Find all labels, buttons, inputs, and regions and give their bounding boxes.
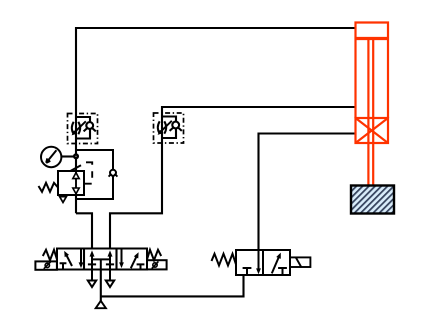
V3 body [58, 171, 84, 195]
V1 enclosure frame [68, 114, 98, 144]
V3 adjustment tick [71, 165, 81, 171]
V5 pneumatic pilot [290, 257, 310, 267]
wire: left riser through flow control to regulator [75, 27, 77, 213]
wire: cylinder cap supply (top horizontal) [76, 27, 356, 29]
V4 exhaust 5 [88, 281, 96, 288]
V4 right box down arrow [121, 249, 123, 264]
V4 left box down arrow [80, 249, 82, 264]
pressure regulator V3 [39, 150, 118, 202]
V1 adjustment arrow [75, 121, 86, 132]
C1 piston rod [368, 40, 373, 186]
V4 right box crossed arrow [131, 255, 137, 268]
V1 check ball [86, 122, 93, 129]
pressure gauge Z1 [41, 147, 61, 167]
V1 throttle arcs [72, 122, 80, 134]
C1 piston [356, 37, 389, 40]
V3 pilot line (dashed) [85, 162, 93, 183]
wire: rod-side feed from cylinder through right flow control to valve port 2 [110, 107, 356, 251]
V3 bypass check valve [110, 170, 116, 176]
V4 right box blocked port [137, 264, 145, 269]
V4 right pilot [147, 260, 167, 269]
V5 body [236, 250, 290, 275]
V4 right spring [147, 250, 161, 260]
V2 throttle arcs [158, 121, 166, 133]
flow control valve V2 (one-way flow control, right) [154, 113, 184, 143]
V4 left pilot [35, 261, 57, 269]
V5 right box pass arrow [272, 257, 279, 274]
wire: supply branch to 3/2 valve [101, 275, 244, 296]
V2 bypass loop [162, 117, 176, 139]
V4 centre box port lines with up arrows [92, 256, 110, 281]
V5 spring [212, 254, 237, 266]
wire: gauge link [62, 155, 75, 157]
V2 enclosure frame [154, 113, 184, 143]
V4 exhaust 3 [106, 281, 114, 288]
V2 adjustment arrow [161, 121, 172, 132]
node: gauge junction [74, 155, 78, 159]
V5 left box down arrow [258, 250, 260, 269]
V2 check seat [170, 127, 182, 131]
V3 spring [39, 183, 59, 192]
V2 check ball [172, 122, 179, 129]
C1 barrel [356, 23, 389, 119]
C1 end box with cross [356, 118, 389, 143]
cylinder C1 (orange, vertical with load) [356, 23, 389, 186]
V4 left box crossed arrow [66, 254, 72, 266]
V4 left box blocked port [60, 263, 67, 269]
V4 centre box blocked caps [88, 263, 114, 265]
V3 drain [60, 197, 67, 203]
V4 body [57, 249, 147, 270]
V4 left spring [43, 250, 57, 260]
V3 bypass loop wire [76, 150, 113, 199]
5/3 way valve V4 (pressure centre) [35, 249, 166, 288]
V5 left box blocked port [243, 268, 252, 275]
V1 check seat [84, 127, 96, 131]
V4 centre box supply line [100, 259, 102, 269]
V4 centre box bridge [92, 258, 110, 260]
V1 bypass loop [76, 117, 90, 139]
wire: supply drop from 5/3 valve to source [100, 270, 102, 302]
V5 right box blocked port [278, 268, 287, 275]
3/2 way valve V5 [212, 250, 311, 275]
wire: 3/2 valve output to cylinder bottom port [259, 134, 356, 251]
flow control valve V1 (one-way flow control, left) [68, 114, 98, 144]
load mass on rod [351, 186, 394, 214]
wire: regulator output jog to valve port 4 [76, 213, 92, 251]
V3 flow line with open arrows [75, 171, 77, 195]
compressed air source [96, 301, 106, 308]
